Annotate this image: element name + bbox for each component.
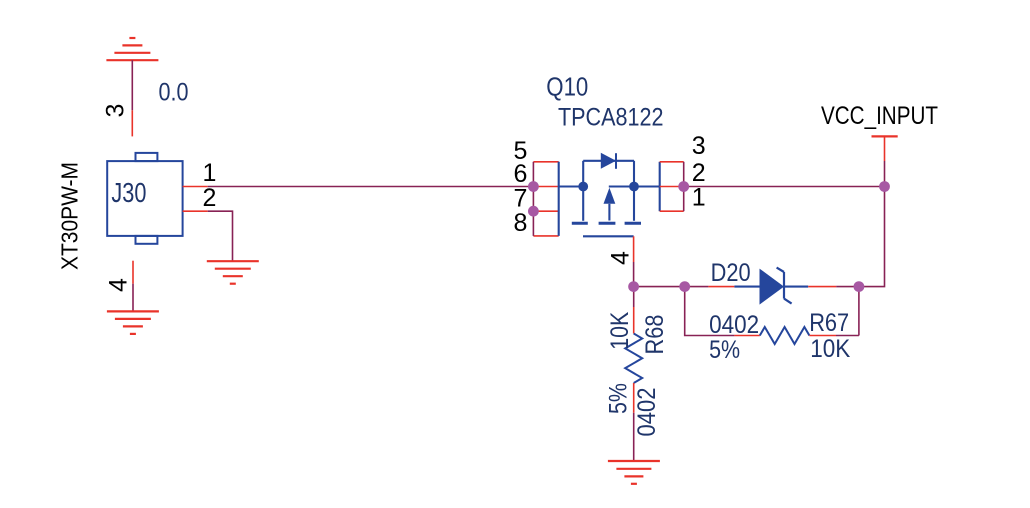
D20 cathode pin stub [808,286,836,288]
junction dot pin 7 [528,206,539,217]
resistor R68 zigzag [625,334,642,384]
wire D20 to right junction [836,286,859,288]
svg-text:0402: 0402 [709,311,759,339]
junction dot pin 2 right [678,181,689,192]
svg-text:10K: 10K [810,335,850,363]
junction dot D20 left [679,281,690,292]
transistor Q10 left pin bus (blue) [558,162,560,236]
R67 left pin stub [734,335,759,337]
wire blue drain dot to right bus [634,185,660,187]
svg-text:R67: R67 [809,309,849,337]
pin 4 stub of Q10 [633,236,635,262]
wire pin4 to bottom-left ground [132,284,134,311]
svg-text:3: 3 [102,104,130,118]
wire pin4 row to D20 [634,286,685,288]
svg-text:3: 3 [692,132,706,160]
pin 4 stub of J30 [132,261,134,284]
pin 3 stub of J30 [131,110,133,136]
right pin stubs 3,2,1 [660,162,684,211]
R68 bottom pin stub [633,383,635,413]
wire vertical joining pins 5-8 [532,162,534,236]
svg-text:D20: D20 [711,259,751,287]
wire D20-left junction down to R67 [685,287,735,336]
ground GND middle [207,261,259,284]
connector J30 body [107,153,182,244]
wire vertical joining pins 3,2,1 [683,162,685,211]
wire main net Q10 to VCC [684,186,885,188]
wire R68 to ground [633,413,635,461]
wire R67 to right junction [836,335,859,337]
power VCC_INPUT symbol [872,135,898,137]
D20 anode pin stub [708,286,734,288]
svg-text:VCC_INPUT: VCC_INPUT [821,102,938,130]
R68 top pin stub [633,307,635,334]
junction dot right of D20 [854,281,865,292]
junction dot VCC [879,181,890,192]
R67 right pin stub [809,335,836,337]
diode D20 zener cathode bar [777,268,792,304]
ground GND top-left (flipped) [106,38,158,60]
svg-text:8: 8 [514,209,528,237]
svg-text:1: 1 [692,184,706,212]
Q10 gate line [583,235,634,237]
resistor R67 zigzag [760,327,810,344]
svg-text:0.0: 0.0 [159,79,189,107]
ground GND bottom-left [107,311,159,334]
transistor Q10 mosfet body [583,161,634,221]
svg-text:TPCA8122: TPCA8122 [558,104,664,132]
svg-text:Q10: Q10 [546,72,588,102]
wire main net J30 pin1 to Q10 [208,186,534,188]
Q10 body diode [601,153,616,169]
wire junction down to R67 [858,287,860,336]
junction dot Q10 pin4 [628,281,639,292]
D20 anode lead (blue) [734,286,759,288]
wire pin3 to top ground [131,60,133,110]
svg-text:R68: R68 [641,315,669,355]
pin 2 stub of J30 [183,210,208,212]
Q10 source dot [578,182,588,192]
wire VCC stub [884,161,886,187]
transistor Q10 right pin bus (blue) [659,162,661,211]
Q10 drain dot [629,182,639,192]
wire to D20 anode [685,286,709,288]
ground GND below R68 [608,461,660,484]
transistor Q10 left pin stubs 5,6,7,8 [533,162,558,236]
pin 1 stub of J30 [183,186,208,188]
svg-text:5%: 5% [709,336,740,364]
svg-text:2: 2 [203,184,217,212]
svg-text:4: 4 [105,278,133,292]
svg-text:1: 1 [203,159,217,187]
svg-text:XT30PW-M: XT30PW-M [57,162,83,270]
junction dot pin 6 [528,181,539,192]
svg-text:0402: 0402 [633,388,661,437]
Q10 channel bars [572,222,641,225]
wire blue from bus to mosfet source [559,185,584,187]
wire VCC branch down to D20 row [859,187,885,287]
svg-text:10K: 10K [606,312,634,350]
wire pin4 junction down to R68 [633,287,635,307]
Q10 substrate arrow [604,188,616,204]
wire Q10 pin4 down [633,262,635,287]
diode D20 triangle [760,269,785,305]
svg-text:5%: 5% [605,383,633,414]
svg-text:4: 4 [607,251,635,265]
svg-text:J30: J30 [111,177,146,208]
D20 cathode lead (blue) [784,286,808,288]
wire J30 pin2 to middle ground [208,211,233,261]
